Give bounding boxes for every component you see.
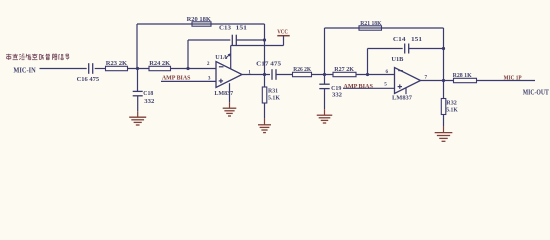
- svg-text:LM837: LM837: [392, 94, 413, 101]
- svg-text:6: 6: [386, 69, 389, 75]
- svg-text:2: 2: [207, 61, 210, 67]
- svg-text:R28 1K: R28 1K: [453, 72, 472, 79]
- svg-text:R21 18K: R21 18K: [360, 20, 381, 27]
- svg-text:R26 2K: R26 2K: [293, 66, 311, 73]
- svg-text:5.1K: 5.1K: [268, 95, 280, 102]
- svg-text:C18: C18: [143, 90, 154, 97]
- svg-text:LM837: LM837: [214, 90, 233, 97]
- svg-text:151: 151: [411, 36, 422, 43]
- svg-text:5.1K: 5.1K: [446, 107, 458, 114]
- svg-text:R23 2K: R23 2K: [106, 60, 127, 67]
- svg-text:MIC-OUT: MIC-OUT: [523, 88, 549, 96]
- svg-text:7: 7: [425, 75, 428, 81]
- svg-text:R27 2K: R27 2K: [334, 66, 354, 73]
- svg-text:332: 332: [332, 92, 342, 99]
- svg-text:R31: R31: [268, 87, 278, 94]
- svg-text:3: 3: [208, 75, 211, 81]
- svg-text:R24 2K: R24 2K: [149, 60, 170, 67]
- svg-text:R32: R32: [446, 99, 457, 106]
- svg-text:332: 332: [144, 98, 154, 105]
- svg-text:MIC-IN: MIC-IN: [13, 67, 35, 75]
- svg-text:5: 5: [384, 82, 387, 88]
- svg-text:C14: C14: [393, 36, 406, 43]
- svg-text:C17 475: C17 475: [256, 60, 282, 67]
- svg-text:AMP BIAS: AMP BIAS: [162, 75, 191, 82]
- svg-text:VCC: VCC: [277, 29, 288, 36]
- svg-text:C13: C13: [219, 24, 232, 31]
- svg-text:U1B: U1B: [391, 56, 404, 63]
- svg-text:C16 475: C16 475: [77, 76, 100, 83]
- svg-text:R20 18K: R20 18K: [187, 16, 211, 23]
- svg-text:MIC 1P: MIC 1P: [504, 75, 522, 82]
- svg-text:151: 151: [236, 24, 248, 31]
